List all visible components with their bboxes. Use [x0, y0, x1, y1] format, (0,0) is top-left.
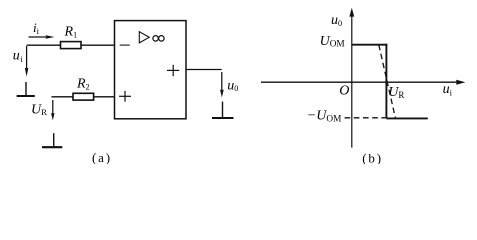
- svg-text:(a): (a): [92, 150, 112, 164]
- svg-text:O: O: [339, 83, 349, 98]
- svg-text:(b): (b): [362, 151, 383, 164]
